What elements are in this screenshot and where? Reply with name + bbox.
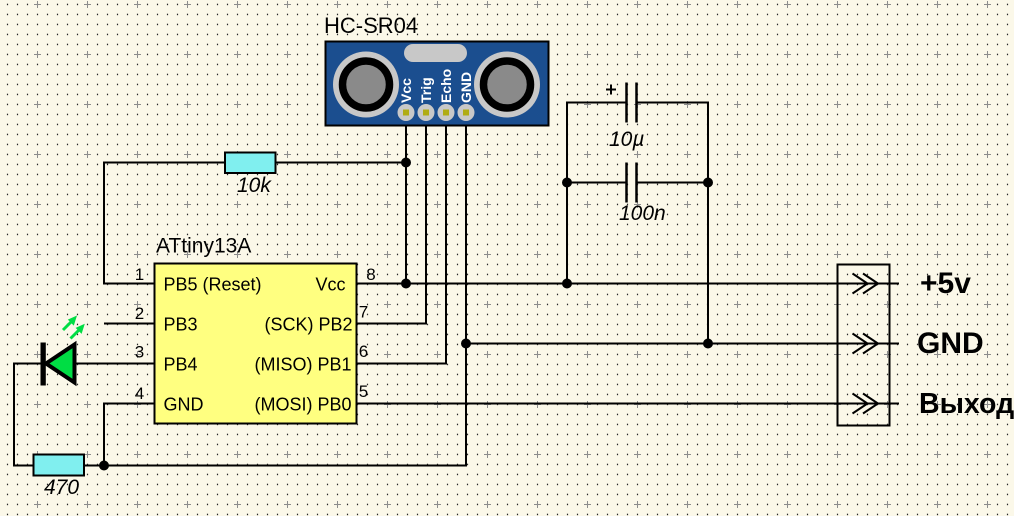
junction C1 left +5v xyxy=(562,279,572,289)
capacitor C1 10µ plates xyxy=(627,83,637,123)
HC-SR04 pad Vcc xyxy=(398,104,415,121)
svg-text:1: 1 xyxy=(135,265,144,284)
wire 10k right lead to Vcc node xyxy=(275,162,407,164)
wire GND net to connector xyxy=(466,343,899,345)
svg-text:PB5 (Reset): PB5 (Reset) xyxy=(164,275,262,295)
junction R2-pin4 xyxy=(99,461,109,471)
LED D1 cathode bar xyxy=(41,343,46,386)
svg-text:Выход: Выход xyxy=(919,388,1014,420)
wire 470 left lead xyxy=(13,465,35,467)
connector pin chevron +5v xyxy=(853,274,879,294)
junction C2 right xyxy=(703,178,713,188)
svg-text:470: 470 xyxy=(44,476,79,499)
LED D1 light arrow 1 xyxy=(63,316,77,331)
svg-text:Echo: Echo xyxy=(438,69,454,103)
LED D1 light arrow 2 xyxy=(71,324,85,339)
svg-text:(MOSI) PB0: (MOSI) PB0 xyxy=(255,395,352,415)
wire C2 left lead xyxy=(567,182,627,184)
connector pin chevron Выход xyxy=(853,394,879,414)
HC-SR04 pad Echo xyxy=(438,104,455,121)
wire LED anode to pin3 xyxy=(75,363,155,365)
wire pin4 GND xyxy=(103,403,155,405)
svg-text:10k: 10k xyxy=(237,174,272,197)
capacitor C2 100n plates xyxy=(627,163,637,203)
wire bottom GND return xyxy=(84,465,467,467)
HC-SR04 pad Trig xyxy=(418,104,435,121)
wire C2 right lead xyxy=(636,182,708,184)
junction GND net xyxy=(461,339,471,349)
svg-text:3: 3 xyxy=(135,343,144,362)
wire C1 top right xyxy=(636,102,708,104)
wire pin6 PB1 to Echo xyxy=(356,363,447,365)
junction 10k-Vcc xyxy=(401,158,411,168)
svg-text:ATtiny13A: ATtiny13A xyxy=(156,235,251,258)
HC-SR04 left transducer xyxy=(333,52,399,118)
svg-text:2: 2 xyxy=(135,304,144,323)
wire PB0 output to connector xyxy=(356,403,899,405)
wire HC-SR04 Vcc vertical xyxy=(405,112,407,284)
wire HC-SR04 Trig vertical xyxy=(425,112,427,325)
HC-SR04 right transducer xyxy=(474,52,540,118)
C1 polarity + xyxy=(606,85,616,95)
resistor R2 470 xyxy=(34,455,85,476)
resistor R1 10k xyxy=(225,153,276,174)
wire LED cathode horizontal xyxy=(13,363,41,365)
IC U1 ATtiny13A body xyxy=(155,264,357,424)
wire 10k left lead to PB5 pull-up xyxy=(104,162,226,164)
svg-text:Vcc: Vcc xyxy=(316,275,346,295)
LED D1 triangle xyxy=(46,345,75,383)
module HC-SR04 board xyxy=(326,42,549,126)
wire pin4 vertical down xyxy=(103,404,105,466)
svg-text:5: 5 xyxy=(359,382,368,401)
svg-text:HC-SR04: HC-SR04 xyxy=(324,13,418,38)
wire HC-SR04 Echo vertical xyxy=(445,112,447,365)
svg-text:GND: GND xyxy=(164,395,204,415)
junction C2 left xyxy=(562,178,572,188)
junction cap-GND xyxy=(703,339,713,349)
svg-text:Trig: Trig xyxy=(418,77,434,103)
svg-text:(SCK) PB2: (SCK) PB2 xyxy=(265,315,353,335)
svg-text:100n: 100n xyxy=(619,202,666,225)
wire HC-SR04 GND vertical xyxy=(465,112,467,467)
svg-text:10µ: 10µ xyxy=(609,128,644,151)
svg-text:4: 4 xyxy=(135,384,144,403)
svg-text:(MISO) PB1: (MISO) PB1 xyxy=(255,355,352,375)
svg-text:PB3: PB3 xyxy=(164,315,198,335)
HC-SR04 pad GND xyxy=(458,104,475,121)
wire cap left vertical to +5v xyxy=(566,102,568,285)
svg-text:PB4: PB4 xyxy=(164,355,198,375)
wire C1 top left xyxy=(567,102,627,104)
svg-text:Vcc: Vcc xyxy=(398,78,414,103)
svg-text:GND: GND xyxy=(458,72,474,103)
wire cap right vertical to GND xyxy=(707,102,709,345)
wire pin7 PB2 to Trig xyxy=(356,323,427,325)
wire +5v net pin8 to connector xyxy=(356,283,899,285)
HC-SR04 oscillator can xyxy=(404,44,467,62)
connector pin chevron GND xyxy=(853,334,879,354)
wire pin1 PB5 xyxy=(103,283,155,285)
connector X1 body xyxy=(838,265,890,426)
wire LED cathode vertical xyxy=(13,363,15,467)
svg-text:8: 8 xyxy=(366,265,375,284)
junction Vcc-pin8 xyxy=(401,279,411,289)
svg-text:GND: GND xyxy=(917,327,984,360)
svg-text:6: 6 xyxy=(359,342,368,361)
svg-text:+5v: +5v xyxy=(920,267,971,300)
wire vertical pull-up to pin1 xyxy=(103,162,105,285)
wire pin2 PB3 stub xyxy=(104,323,155,325)
svg-text:7: 7 xyxy=(359,303,368,322)
